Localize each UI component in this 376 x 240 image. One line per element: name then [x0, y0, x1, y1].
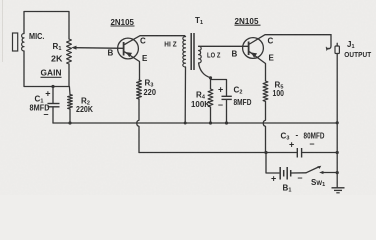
scan edge artifact	[2, 0, 4, 62]
potentiometer R1	[67, 39, 72, 64]
wire R3 bottom with hop	[137, 99, 139, 153]
capacitor C2	[222, 95, 232, 97]
capacitor C3	[296, 148, 298, 158]
wire C2 bottom	[226, 100, 228, 123]
paper texture	[0, 0, 1, 1]
transistor Q2	[243, 38, 264, 59]
wire jack sleeve down	[336, 54, 338, 123]
transformer T1 primary	[185, 35, 186, 38]
transformer T1 secondary	[199, 46, 202, 63]
wire C1 bottom	[52, 107, 54, 123]
wire R4 top	[210, 78, 212, 89]
wire C1 top	[52, 87, 54, 104]
R1 wiper arrow	[75, 47, 124, 50]
resistor R2	[68, 95, 73, 110]
wire R2 top	[68, 87, 71, 95]
node junction box-bottom/C1	[51, 85, 54, 88]
transistor Q1	[118, 38, 139, 59]
wire battery drop	[266, 153, 279, 174]
Q1 emitter	[125, 52, 140, 80]
wire to C2	[211, 80, 227, 97]
resistor R4	[208, 89, 213, 107]
wire right bus	[336, 123, 338, 188]
wire emitter/battery rail	[139, 152, 297, 154]
jack J1 plug	[336, 43, 338, 46]
wire primary bottom	[184, 67, 186, 123]
node junction rail/battery	[264, 151, 267, 154]
wire secondary bottom	[199, 63, 211, 78]
Q1 emitter arrow (PNP)	[126, 52, 132, 57]
wire R5 bottom with hop	[263, 102, 265, 153]
microphone coil	[22, 34, 24, 52]
ground symbol	[332, 187, 345, 189]
wire sec base lead	[199, 45, 249, 47]
microphone MIC element	[13, 33, 18, 51]
wire R4 bottom	[210, 107, 212, 123]
switch SW1 contact	[322, 172, 337, 174]
resistor R3	[137, 80, 142, 99]
resistor R5	[263, 81, 268, 102]
battery B1	[279, 167, 281, 180]
wire ground rail	[53, 122, 337, 124]
Q2 emitter	[250, 52, 266, 81]
transformer core	[190, 33, 192, 70]
capacitor C1	[48, 103, 60, 105]
Q1 collector	[125, 36, 185, 45]
Q2 collector	[250, 35, 332, 44]
Q2 emitter arrow (PNP)	[251, 52, 257, 57]
wire mic loop box	[24, 12, 69, 40]
wire collector to jack	[327, 35, 331, 49]
wire R2 bottom	[69, 109, 71, 123]
node junction sec/R4/C2	[209, 76, 212, 79]
wire battery to switch	[291, 172, 306, 174]
jack tip hook	[326, 47, 328, 50]
switch SW1 lever	[306, 167, 319, 173]
